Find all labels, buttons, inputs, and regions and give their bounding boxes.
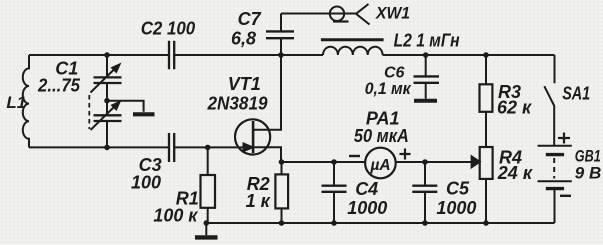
plus sign (battery) [558, 133, 570, 144]
ground (R1) [195, 223, 218, 237]
plus sign (meter) [400, 149, 411, 160]
svg-text:C7: C7 [238, 9, 262, 29]
switch SA1 [544, 86, 554, 146]
node dot source/R2 [279, 159, 285, 165]
node dot gate/R1 [205, 145, 211, 151]
capacitor C6 [414, 55, 440, 99]
resistor R2 [275, 162, 288, 223]
ground (C6) [414, 99, 437, 103]
svg-text:100: 100 [131, 172, 161, 192]
battery GB1 [538, 146, 572, 223]
svg-text:6,8: 6,8 [231, 29, 256, 49]
node dot R2 bottom [279, 220, 285, 226]
wire C1 middle tap to ground [107, 101, 144, 112]
node dot C4 bottom [331, 220, 337, 226]
svg-text:1 к: 1 к [246, 191, 271, 211]
wire top bus [29, 54, 555, 56]
node dot R1 bottom [204, 220, 210, 226]
svg-text:VT1: VT1 [228, 74, 261, 94]
wire top-right corner to switch [554, 55, 556, 83]
svg-text:24 к: 24 к [497, 163, 533, 183]
svg-text:C5: C5 [446, 179, 470, 199]
svg-text:62 к: 62 к [497, 98, 532, 118]
svg-text:100 к: 100 к [153, 206, 198, 226]
inductor L1 [23, 55, 29, 147]
node dot R3 top [483, 52, 489, 58]
svg-text:9 В: 9 В [575, 164, 601, 183]
connector XW1 [330, 4, 370, 25]
wire bottom gate line [29, 146, 253, 148]
svg-text:50 мкА: 50 мкА [354, 126, 409, 146]
resistor R4 (rheostat) [472, 147, 493, 223]
capacitor C1 (variable, two sections) [89, 55, 121, 147]
wire top antenna line [281, 13, 356, 15]
svg-text:XW1: XW1 [375, 3, 410, 22]
capacitor C5 [412, 162, 437, 223]
inductor L2 [321, 40, 384, 55]
svg-text:0,1 мк: 0,1 мк [365, 79, 412, 98]
capacitor C4 [322, 162, 347, 223]
node dot C1 top [104, 52, 110, 58]
svg-text:L1: L1 [6, 93, 26, 112]
node dot C5 bottom [422, 220, 428, 226]
node dot C6 top [423, 52, 429, 58]
minus sign (meter) [349, 155, 360, 157]
capacitor C3 [169, 133, 174, 162]
node dot C7/drain [278, 52, 284, 58]
svg-text:L2 1 мГн: L2 1 мГн [394, 31, 460, 51]
node dot C5 top [422, 159, 428, 165]
minus sign (battery) [560, 195, 571, 197]
wire meter row [282, 161, 472, 163]
svg-text:SA1: SA1 [562, 84, 590, 104]
resistor R3 [480, 55, 493, 147]
capacitor C2 [169, 41, 174, 70]
node dot R4 bottom [483, 220, 489, 226]
svg-text:C2 100: C2 100 [141, 18, 196, 38]
ground (C1 tap) [133, 112, 155, 116]
meter PA1 [365, 148, 396, 179]
svg-text:2...75: 2...75 [37, 76, 81, 96]
svg-text:C4: C4 [355, 179, 378, 199]
node dot C1 middle [104, 98, 110, 104]
capacitor C7 [266, 14, 294, 56]
svg-text:1000: 1000 [347, 198, 387, 218]
svg-text:2N3819: 2N3819 [207, 94, 268, 114]
svg-text:1000: 1000 [436, 198, 476, 218]
resistor R1 [201, 147, 216, 223]
svg-text:µА: µА [369, 157, 390, 174]
wire bottom bus [206, 222, 554, 224]
transistor VT1 [235, 55, 281, 162]
node dot C1 bottom [104, 145, 110, 151]
node dot C4 top [331, 159, 337, 165]
